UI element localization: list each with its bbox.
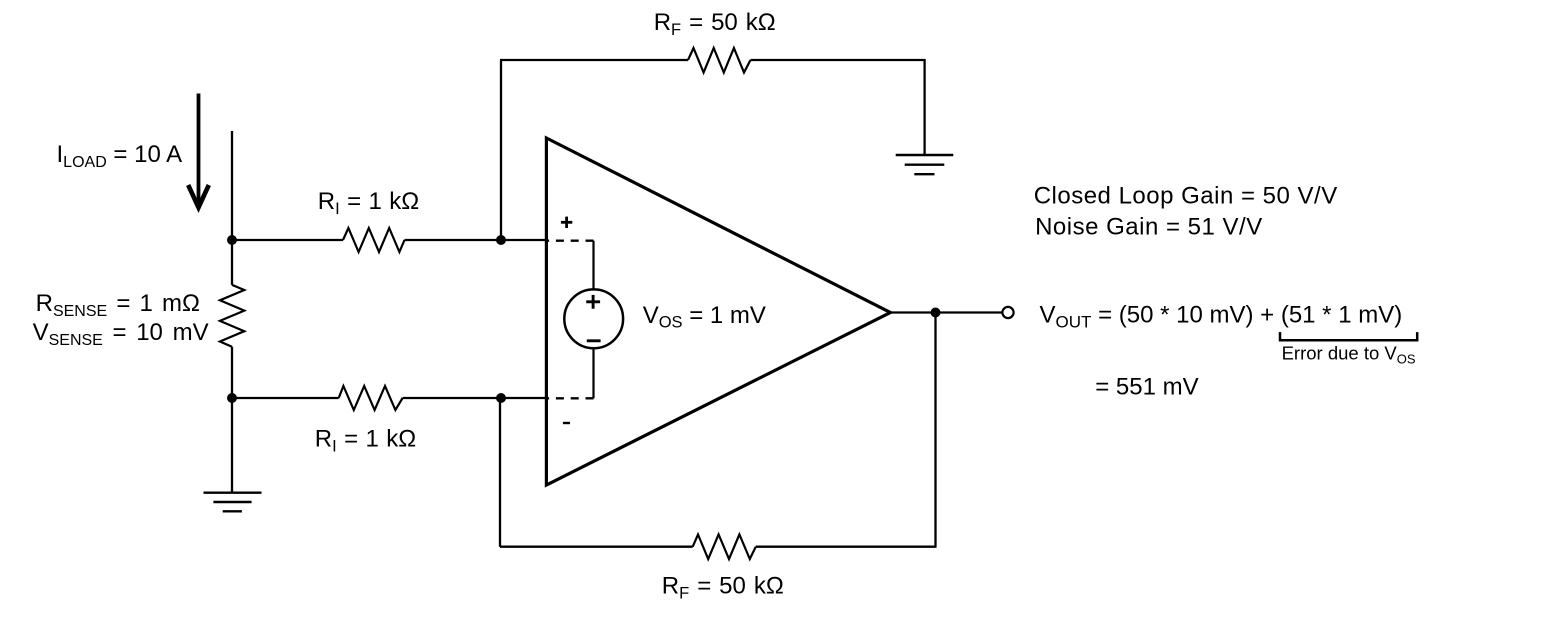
op-amp minus input label — [563, 422, 570, 424]
ground bottom left — [204, 493, 262, 512]
op-amp plus input label — [561, 217, 572, 228]
arrow ILOAD — [188, 94, 209, 208]
wire bottom RI left — [232, 397, 339, 399]
resistor RF top — [688, 48, 751, 73]
wire bottom feedback horizontal left — [500, 546, 693, 548]
svg-text:Noise Gain = 51 V/V: Noise Gain = 51 V/V — [1035, 214, 1263, 241]
dashed lead inverting — [547, 397, 594, 399]
wire left rail upper — [231, 131, 233, 285]
wire top feedback horizontal left — [500, 59, 688, 61]
terminal VOUT open circle — [1002, 307, 1013, 318]
wire top RI right to op-amp — [405, 239, 548, 241]
source VOS plus sign — [586, 295, 600, 309]
dashed lead noninverting — [547, 240, 594, 242]
wire bottom RI right to op-amp — [403, 397, 547, 399]
resistor RI bottom — [339, 386, 403, 410]
node dot output — [931, 308, 941, 318]
op-amp U1 triangle — [546, 138, 890, 485]
bracket under error term — [1280, 332, 1417, 340]
node dot inverting input — [496, 393, 506, 403]
wire top feedback horizontal right — [751, 59, 926, 61]
wire bottom feedback horizontal right — [756, 546, 937, 548]
svg-text:Error due to VOS: Error due to VOS — [1282, 342, 1416, 366]
resistor RSENSE — [220, 285, 244, 347]
wire VOS bottom lead — [592, 348, 594, 398]
source VOS minus sign — [587, 339, 601, 342]
wire VOS top lead — [592, 241, 594, 290]
wire top RI left — [232, 239, 343, 241]
resistor RF bottom — [693, 535, 756, 560]
svg-text:VOUT = (50 * 10 mV) + (51 * 1: VOUT = (50 * 10 mV) + (51 * 1 mV) — [1040, 302, 1403, 332]
svg-text:Closed Loop Gain = 50 V/V: Closed Loop Gain = 50 V/V — [1034, 182, 1338, 209]
svg-text:RI = 1 kΩ: RI = 1 kΩ — [315, 425, 416, 455]
node dot rail bottom — [227, 393, 237, 403]
node dot noninverting input — [496, 235, 506, 245]
resistor RI top — [343, 228, 405, 252]
svg-text:RI = 1 kΩ: RI = 1 kΩ — [318, 188, 419, 218]
wire output — [890, 311, 1002, 313]
wire output down — [934, 313, 936, 547]
svg-text:= 551 mV: = 551 mV — [1095, 374, 1198, 401]
ground top right — [896, 155, 954, 174]
wire top feedback left vertical — [500, 60, 502, 240]
node dot rail top — [227, 235, 237, 245]
wire left rail lower — [231, 347, 233, 493]
wire to top ground — [923, 59, 925, 155]
source VOS circle — [564, 289, 623, 348]
wire bottom feedback left vertical — [499, 398, 501, 547]
